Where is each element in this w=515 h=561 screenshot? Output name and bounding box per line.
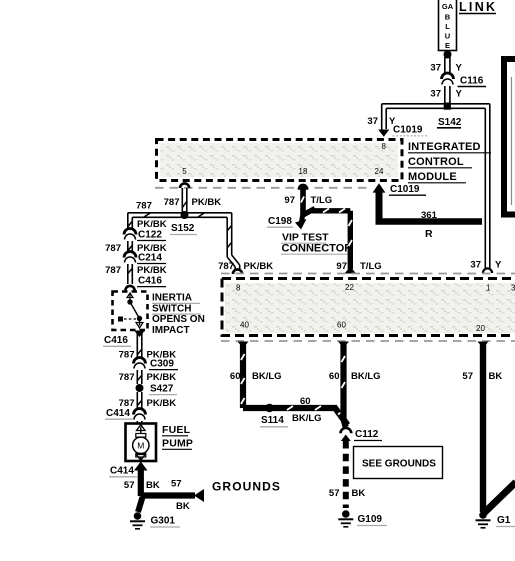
svg-text:MODULE: MODULE: [408, 171, 457, 183]
label C416 upper: [137, 276, 166, 287]
wire diagonal to G301: [138, 497, 143, 512]
svg-text:FUEL: FUEL: [162, 424, 191, 436]
svg-text:60: 60: [230, 371, 241, 382]
label S152: [170, 223, 197, 235]
wire 37 Y (C116 to S142), hollow: [445, 86, 450, 104]
EEC pin 1 terminal hook: [483, 268, 492, 273]
svg-text:GROUNDS: GROUNDS: [212, 480, 281, 494]
wire stub into pump, hollow: [137, 421, 142, 424]
svg-text:37: 37: [367, 116, 378, 127]
svg-text:C1019: C1019: [390, 184, 420, 195]
label INERTIA SWITCH OPENS ON IMPACT: [152, 293, 205, 336]
splice S114 dot: [265, 404, 273, 412]
wire 60 BK/LG pin60 down: [338, 342, 349, 428]
svg-text:60: 60: [329, 371, 340, 382]
label 37 Y lower right: [470, 260, 502, 271]
wire 787 PK/BK (S427-C414) hollow hatched: [137, 392, 142, 410]
svg-text:SEE GROUNDS: SEE GROUNDS: [362, 459, 436, 470]
label 57 BK (branch): [171, 479, 190, 513]
svg-text:97: 97: [336, 261, 347, 272]
wire 57 BK pin20 down: [480, 343, 486, 512]
svg-text:8: 8: [382, 142, 387, 151]
svg-text:G1: G1: [497, 515, 511, 526]
label C112: [354, 429, 382, 441]
svg-text:57: 57: [124, 480, 135, 491]
svg-text:S427: S427: [150, 384, 174, 395]
svg-text:PK/BK: PK/BK: [244, 261, 274, 272]
svg-text:40: 40: [240, 321, 249, 330]
svg-text:T/LG: T/LG: [360, 261, 382, 272]
fuel pump M1 box: [126, 424, 157, 462]
svg-text:S152: S152: [171, 223, 195, 234]
svg-text:PK/BK: PK/BK: [192, 197, 222, 208]
svg-text:U: U: [445, 32, 450, 41]
svg-text:20: 20: [476, 324, 485, 333]
wire 57 BK branch to grounds arrow: [141, 492, 195, 498]
wire hollow horizontal S142 bus: [382, 104, 490, 109]
svg-text:37: 37: [470, 260, 481, 271]
svg-text:1: 1: [486, 284, 491, 293]
svg-text:INERTIA: INERTIA: [152, 293, 192, 304]
svg-text:G109: G109: [358, 514, 383, 525]
label 361 R: [421, 210, 438, 240]
EEC module grey connector line (bottom): [221, 340, 515, 342]
svg-text:C1019: C1019: [393, 125, 423, 136]
splice S427 dot: [136, 384, 144, 392]
connector C122: [124, 229, 166, 241]
label C414 upper: [105, 408, 133, 419]
wire 787 PK/BK (C122-C214) hollow hatched: [128, 241, 133, 254]
connector C309: [134, 358, 179, 370]
label 97 T/LG lower: [336, 261, 381, 272]
wire 787 PK/BK (C309-S427) hollow hatched: [137, 370, 142, 384]
svg-text:60: 60: [300, 396, 311, 407]
ground G301: [130, 512, 145, 529]
svg-text:C214: C214: [138, 253, 162, 264]
label 60 BK/LG (right): [329, 371, 381, 382]
label C414 lower: [109, 466, 137, 477]
integrated control module dashed box: [157, 140, 403, 181]
svg-text:INTEGRATED: INTEGRATED: [408, 141, 481, 153]
label VIP TEST CONNECTOR: [281, 232, 352, 255]
label 787 PK/BK: [119, 372, 177, 383]
label 37 Y at left drop: [367, 116, 396, 127]
fuse link F (20 GA BLUE): [439, 0, 457, 51]
svg-text:R: R: [425, 228, 433, 240]
svg-text:Y: Y: [495, 260, 502, 271]
label C1019 top: [393, 125, 429, 136]
wire hollow hatched S152 horizontal bus 787: [128, 213, 232, 218]
svg-text:BK: BK: [352, 488, 366, 499]
wire 361 R horizontal: [376, 218, 483, 224]
label S114: [260, 415, 288, 427]
module box top right (partial): [504, 59, 515, 215]
svg-text:B: B: [445, 13, 451, 22]
svg-text:C122: C122: [138, 230, 162, 241]
label S142: [437, 117, 462, 128]
svg-text:PUMP: PUMP: [162, 438, 193, 450]
svg-text:S114: S114: [261, 415, 284, 426]
svg-text:BK/LG: BK/LG: [252, 371, 282, 382]
svg-text:CONTROL: CONTROL: [408, 156, 464, 168]
EEC pin 22 terminal flare: [345, 267, 357, 274]
wire 37 Y (fuse link to C116), hollow: [445, 57, 450, 75]
svg-text:18: 18: [299, 167, 308, 176]
label 787 PK/BK: [119, 398, 177, 409]
svg-text:97: 97: [284, 195, 295, 206]
svg-text:57: 57: [462, 371, 473, 382]
svg-text:787: 787: [119, 350, 135, 361]
inertia switch symbol: [118, 293, 143, 328]
label G301: [150, 516, 180, 528]
svg-text:S142: S142: [438, 117, 462, 128]
wire hollow left drop to C1019: [382, 104, 387, 132]
connector C1019 grey dashed line under ICM: [155, 187, 372, 189]
label G1 (cut off): [496, 515, 515, 527]
svg-text:C416: C416: [138, 276, 162, 287]
svg-text:BK/LG: BK/LG: [292, 413, 322, 424]
ground G100: [476, 511, 491, 528]
svg-text:787: 787: [105, 265, 121, 276]
svg-text:8: 8: [236, 284, 241, 293]
svg-text:C414: C414: [106, 408, 130, 419]
node: fuse link terminal dot: [444, 51, 452, 59]
label 37 Y upper: [430, 63, 462, 74]
wire 787 PK/BK right branch from S152, hollow hatched: [227, 213, 240, 270]
wire diagonal from right edge to ground: [484, 482, 515, 513]
wire 97 T/LG fork to C198 arrow: [295, 213, 307, 230]
connector C414 lower arrow: [134, 462, 148, 471]
label G109: [357, 514, 387, 526]
SEE GROUNDS box: [354, 447, 443, 479]
svg-text:Y: Y: [456, 89, 463, 100]
splice S142 junction dot: [444, 103, 451, 110]
svg-text:60: 60: [337, 321, 346, 330]
svg-text:L: L: [445, 22, 450, 31]
EEC pin 40 exit flare: [238, 342, 249, 349]
wire hollow right drop 37 Y (S142 down right side): [485, 104, 490, 268]
svg-text:BK: BK: [176, 501, 190, 512]
wire hollow hatched left drop (to C122): [128, 213, 133, 230]
svg-text:C309: C309: [150, 359, 174, 370]
svg-text:C116: C116: [460, 76, 484, 87]
label 60 BK/LG (left): [230, 371, 282, 382]
svg-text:24: 24: [375, 167, 384, 176]
svg-text:57: 57: [329, 488, 340, 499]
wire 57 BK (pump to ground): [138, 468, 144, 496]
label 57 BK (right): [462, 371, 502, 382]
svg-text:37: 37: [430, 63, 441, 74]
label S427: [149, 384, 177, 395]
svg-text:IMPACT: IMPACT: [152, 325, 190, 336]
label 37 Y lower: [430, 89, 462, 100]
svg-text:787: 787: [119, 372, 135, 383]
label 57 BK: [124, 480, 160, 491]
label 787 PK/BK (right branch): [218, 261, 273, 272]
svg-text:SWITCH: SWITCH: [152, 303, 191, 314]
connector C112: [341, 428, 352, 441]
splice S152 junction dot: [181, 211, 189, 219]
ground G109: [338, 510, 353, 527]
svg-text:787: 787: [164, 197, 180, 208]
connector C416 hook into inertia box: [125, 286, 134, 291]
svg-text:5: 5: [182, 167, 187, 176]
label 787 PK/BK: [105, 265, 167, 276]
label 57 BK (dashed wire): [329, 488, 365, 499]
fuel pump motor symbol: [133, 425, 149, 461]
svg-text:M: M: [137, 441, 144, 451]
svg-text:37: 37: [430, 89, 441, 100]
wire 60 BK/LG pin40 down: [241, 343, 245, 408]
wire 97 T/LG pin18 drop (black striped): [301, 189, 304, 215]
svg-text:C416: C416: [104, 335, 128, 346]
wire 97 T/LG diagonal+horizontal to right: [302, 209, 350, 216]
svg-text:787: 787: [105, 243, 121, 254]
svg-text:57: 57: [171, 479, 182, 490]
svg-text:PK/BK: PK/BK: [147, 398, 177, 409]
label C416 lower: [103, 335, 131, 346]
svg-text:PK/BK: PK/BK: [137, 219, 167, 230]
svg-text:787: 787: [218, 261, 234, 272]
label 787 PK/BK: [119, 350, 177, 361]
svg-text:C198: C198: [268, 216, 292, 227]
EEC module grey connector line (top): [221, 273, 515, 275]
svg-text:T/LG: T/LG: [311, 195, 333, 206]
wire exit flare below inertia box: [134, 331, 145, 338]
grounds arrow: [194, 489, 204, 502]
svg-text:Y: Y: [456, 63, 463, 74]
label 787 PK/BK: [105, 243, 167, 254]
label LINK: [459, 0, 497, 14]
inertia switch dashed box: [113, 292, 148, 331]
wire 57 BK dashed (C112 to G109): [343, 441, 349, 508]
svg-text:PK/BK: PK/BK: [147, 372, 177, 383]
label C198: [267, 216, 293, 227]
wire 97 T/LG vertical down to EEC pin 22: [349, 211, 353, 269]
connector C116: [442, 73, 487, 87]
svg-text:CONNECTOR: CONNECTOR: [282, 243, 353, 255]
svg-text:C414: C414: [110, 466, 134, 477]
connector C214: [124, 252, 166, 264]
svg-text:E: E: [445, 41, 450, 50]
svg-text:3: 3: [511, 284, 515, 293]
svg-text:PK/BK: PK/BK: [137, 265, 167, 276]
wire 787 PK/BK (inertia to C309) hollow hatched: [137, 332, 142, 360]
EEC module dashed box: [222, 279, 515, 336]
label C1019 right: [389, 184, 426, 195]
connector C1019 arrow pin 24: [373, 183, 386, 221]
label 787 PK/BK (pin5): [164, 197, 222, 208]
wire horizontal to S114 and diagonal to C112: [243, 406, 348, 425]
svg-text:C112: C112: [355, 429, 379, 440]
ICM pin 5 terminal hook: [180, 183, 189, 188]
wire 787 PK/BK (C214-C416) hollow hatched: [128, 264, 133, 284]
svg-text:OPENS ON: OPENS ON: [152, 314, 205, 325]
svg-text:BK/LG: BK/LG: [351, 371, 381, 382]
svg-text:22: 22: [345, 283, 354, 292]
label 60 BK/LG (middle): [292, 396, 322, 424]
svg-text:BK: BK: [489, 371, 503, 382]
ICM pin 18 terminal hook: [298, 184, 307, 189]
label FUEL PUMP: [162, 424, 193, 450]
wire 787 PK/BK pin5 drop, hollow hatched: [182, 188, 187, 213]
connector C1019 arrow (into ICM pin 8): [378, 130, 389, 137]
label 97 T/LG (pin18): [284, 195, 332, 206]
svg-text:361: 361: [421, 210, 438, 221]
label INTEGRATED CONTROL MODULE: [408, 141, 491, 183]
svg-text:GA: GA: [442, 2, 454, 11]
EEC pin 20 exit flare: [478, 342, 489, 349]
connector C414: [134, 409, 146, 420]
svg-text:BK: BK: [146, 480, 160, 491]
svg-text:LINK: LINK: [459, 0, 497, 14]
svg-text:G301: G301: [151, 516, 176, 527]
EEC pin 8 terminal hook: [233, 269, 242, 274]
svg-text:787: 787: [136, 201, 152, 212]
